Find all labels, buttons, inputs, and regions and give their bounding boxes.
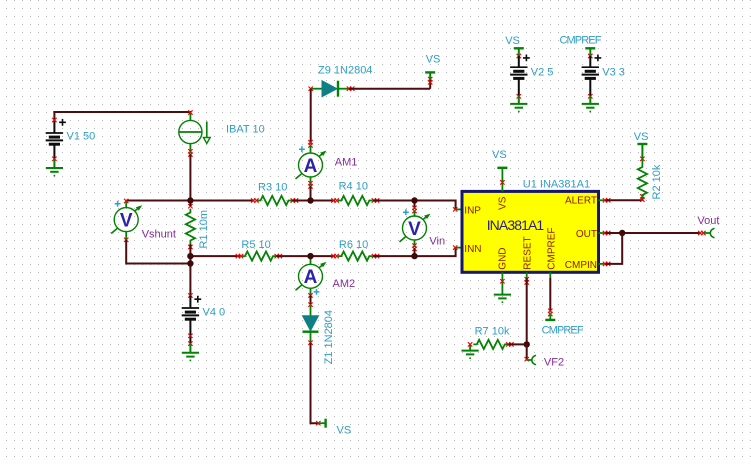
svg-text:V: V [120,210,133,231]
svg-text:V2 5: V2 5 [531,67,554,79]
svg-text:VS: VS [337,425,352,437]
svg-text:CMPREF: CMPREF [560,35,602,47]
svg-text:ALERT: ALERT [565,196,597,207]
svg-text:OUT: OUT [576,229,597,240]
svg-text:Vout: Vout [697,215,719,227]
svg-text:U1 INA381A1: U1 INA381A1 [523,178,590,190]
svg-text:A: A [304,267,318,288]
svg-text:R5 10: R5 10 [241,239,270,251]
svg-text:V: V [408,219,421,240]
svg-text:GND: GND [498,247,509,269]
svg-text:VS: VS [498,196,509,210]
svg-text:RESET: RESET [523,236,534,269]
svg-text:INA381A1: INA381A1 [487,217,545,233]
svg-text:INP: INP [464,205,481,216]
svg-text:R4 10: R4 10 [339,180,368,192]
svg-text:CMPREF: CMPREF [542,324,584,336]
svg-text:R1 10m: R1 10m [198,210,210,249]
svg-text:R6 10: R6 10 [339,239,368,251]
svg-text:CMPIN: CMPIN [565,260,597,271]
svg-text:V4 0: V4 0 [203,307,226,319]
svg-text:VS: VS [634,131,649,143]
svg-text:AM1: AM1 [335,157,358,169]
svg-text:Vshunt: Vshunt [142,229,176,241]
svg-text:IBAT 10: IBAT 10 [226,124,265,136]
svg-text:Z9 1N2804: Z9 1N2804 [318,65,372,77]
svg-text:R3 10: R3 10 [258,181,287,193]
svg-text:VF2: VF2 [544,356,564,368]
svg-text:R2 10k: R2 10k [651,164,663,199]
svg-text:R7 10k: R7 10k [475,326,510,338]
svg-text:V3 3: V3 3 [602,67,625,79]
svg-text:V1 50: V1 50 [67,131,96,143]
svg-text:INN: INN [464,244,481,255]
svg-text:A: A [304,156,318,177]
svg-text:Vin: Vin [429,236,445,248]
svg-text:CMPREF: CMPREF [546,227,557,269]
svg-text:Z1 1N2804: Z1 1N2804 [323,310,335,364]
svg-text:VS: VS [492,149,507,161]
svg-text:AM2: AM2 [333,278,356,290]
svg-text:VS: VS [505,35,520,47]
svg-text:VS: VS [426,54,441,66]
